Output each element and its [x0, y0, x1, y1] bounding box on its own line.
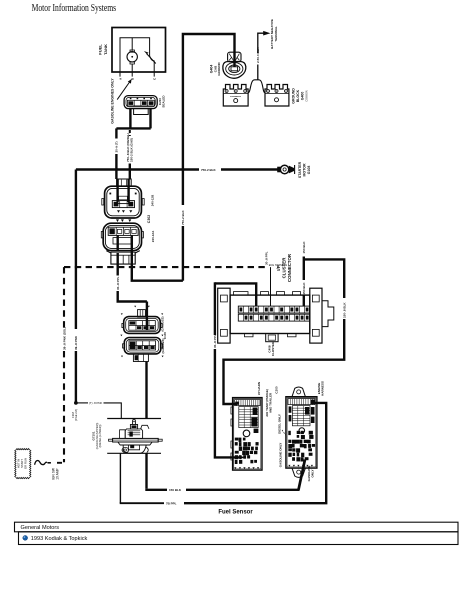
svg-text:(PGE 2-8): (PGE 2-8)	[74, 409, 78, 421]
footer row 1993 Kodiak & Topkick	[23, 536, 88, 543]
ground bolt G404	[223, 52, 246, 78]
svg-text:240-12B: 240-12B	[151, 194, 155, 206]
C210 label	[158, 95, 166, 108]
ground block G400	[223, 80, 289, 106]
ground block label	[292, 88, 309, 104]
wire C302 right to ground junction	[132, 235, 183, 281]
svg-text:FUEL: FUEL	[98, 44, 103, 55]
wire 30-A to connector C302	[115, 128, 119, 202]
svg-text:(GAUGES): (GAUGES)	[161, 316, 165, 331]
svg-text:30-A (T): 30-A (T)	[115, 141, 119, 152]
svg-text:ONLY: ONLY	[310, 469, 314, 477]
svg-text:30-.8 PPL: 30-.8 PPL	[213, 334, 217, 348]
fuel tank F1	[112, 28, 166, 73]
starter motor label	[298, 161, 311, 178]
footer row General Motors	[21, 525, 60, 531]
svg-text:TERMINAL: TERMINAL	[274, 26, 278, 42]
wire bus below C210	[116, 127, 150, 129]
gauge module left (I/P)	[231, 398, 262, 471]
oval connector corner marks	[120, 306, 163, 357]
wire C210 left pin down	[129, 109, 131, 129]
wire ground branch right	[224, 259, 347, 404]
wire pink to sender	[78, 401, 122, 419]
C302 center label	[147, 215, 151, 223]
harness boundary dashed line vertical	[62, 267, 66, 462]
svg-text:7B PPL: 7B PPL	[166, 502, 177, 506]
cluster connector pin rows	[238, 306, 309, 321]
cluster connector labels	[276, 253, 292, 282]
junction dot pink feed	[71, 401, 78, 421]
oval connectors label C100	[161, 316, 168, 353]
svg-text:150 BLK: 150 BLK	[302, 282, 306, 295]
svg-text:750-2 BLK: 750-2 BLK	[201, 168, 217, 172]
ground wire horizontal to starter	[76, 168, 278, 172]
svg-text:I/P HARN: I/P HARN	[257, 382, 261, 395]
connector C302 lower half	[101, 223, 143, 264]
connector C210	[124, 96, 157, 109]
svg-text:C100: C100	[163, 332, 167, 340]
svg-text:150 BLK: 150 BLK	[302, 241, 306, 254]
connector C302 upper half	[102, 179, 144, 222]
svg-text:Fuel Sensor: Fuel Sensor	[218, 510, 253, 516]
svg-text:150-2 BLK (GAS): 150-2 BLK (GAS)	[130, 138, 134, 162]
svg-text:GROUND: GROUND	[292, 88, 296, 104]
svg-text:GASOLINE ENGINES ONLY: GASOLINE ENGINES ONLY	[111, 78, 115, 124]
C302 upper label	[151, 194, 155, 206]
svg-text:C302: C302	[147, 215, 151, 223]
tank pin C	[153, 72, 157, 80]
svg-text:G400: G400	[301, 92, 305, 101]
svg-text:General Motors: General Motors	[21, 525, 60, 531]
fuse IGN SW 10 AMP	[35, 461, 64, 481]
fuel sensor G7101 assembly	[107, 419, 162, 454]
svg-text:30-.8 PPL: 30-.8 PPL	[116, 276, 120, 290]
svg-text:(T) .8 PNK: (T) .8 PNK	[89, 401, 102, 405]
svg-text:OR RUN: OR RUN	[24, 458, 28, 469]
svg-text:Motor Information Systems: Motor Information Systems	[32, 3, 117, 14]
harness boundary dashed line horizontal	[64, 264, 287, 267]
ground wire top to G404	[181, 34, 234, 281]
svg-text:(DIESEL (LOWER)): (DIESEL (LOWER))	[98, 424, 102, 447]
wire junction to cluster pin	[215, 283, 256, 306]
wire pink vertical left	[74, 170, 78, 403]
svg-text:CLUSTER: CLUSTER	[281, 257, 286, 279]
wire C302 to junction (PPL)	[116, 235, 147, 302]
wire 30 PPL down to gauge module	[213, 282, 244, 459]
wire 750 BLK dashed to connector C302	[126, 130, 134, 202]
diesel only note	[278, 414, 287, 437]
svg-text:CONNECTOR: CONNECTOR	[287, 253, 292, 282]
svg-text:GASOLINE ONLY: GASOLINE ONLY	[279, 443, 283, 468]
gasoline engines only note	[111, 78, 132, 124]
fuel level variable resistor	[144, 51, 156, 72]
wire sender ground to right module	[145, 453, 305, 492]
svg-text:DIESEL ONLY: DIESEL ONLY	[278, 414, 282, 434]
svg-text:39-.8 PNK (DSL): 39-.8 PNK (DSL)	[62, 327, 66, 350]
battery negative terminal label	[270, 19, 278, 49]
svg-text:BLOCK: BLOCK	[296, 89, 300, 102]
left module labels	[257, 382, 279, 417]
tank pin A	[118, 72, 122, 80]
svg-text:39-.8 PNK: 39-.8 PNK	[74, 335, 78, 350]
gauge module right (engine)	[286, 387, 317, 477]
svg-text:COMMON: COMMON	[230, 96, 241, 98]
tank pin B	[131, 72, 135, 80]
right module labels	[317, 381, 325, 396]
C302 lower label	[151, 230, 155, 242]
svg-text:150 BLK: 150 BLK	[169, 488, 182, 492]
ring terminal starter motor G108	[278, 165, 295, 174]
svg-text:G7101: G7101	[92, 431, 96, 440]
svg-text:30-.8 PPL: 30-.8 PPL	[265, 251, 269, 265]
svg-text:(GAUGES): (GAUGES)	[161, 338, 165, 353]
svg-text:TANK: TANK	[103, 44, 108, 55]
svg-text:240-12A: 240-12A	[151, 230, 155, 242]
svg-text:MOTOR: MOTOR	[303, 163, 307, 176]
jumper loop pins B-C	[134, 109, 149, 115]
wire into oval connectors	[146, 302, 148, 331]
svg-text:750-2 BLK: 750-2 BLK	[181, 209, 185, 225]
svg-text:CLUSTER: CLUSTER	[271, 341, 275, 356]
title	[32, 3, 117, 14]
svg-text:G108: G108	[307, 166, 311, 175]
svg-text:C200: C200	[275, 386, 279, 394]
cluster bottom label C408	[268, 341, 276, 356]
svg-text:I/P: I/P	[276, 265, 281, 270]
oval connector lower	[123, 338, 163, 362]
wire ground block to cluster	[302, 241, 306, 307]
hot in start or run box	[15, 449, 31, 479]
oval connector upper	[122, 310, 162, 334]
svg-text:GROUND: GROUND	[217, 62, 221, 76]
footer table	[15, 522, 459, 544]
fuel pump M	[127, 38, 137, 72]
gasoline only note right	[307, 466, 315, 482]
svg-text:AND TRAILER: AND TRAILER	[269, 392, 273, 413]
wire sender signal to right module	[120, 403, 327, 506]
svg-text:HARNESS: HARNESS	[321, 381, 325, 396]
wire C210 right pin down	[149, 109, 151, 129]
G7101 label	[92, 423, 103, 450]
svg-text:150-.8 BLK: 150-.8 BLK	[343, 302, 347, 318]
svg-text:10 AMP: 10 AMP	[55, 467, 59, 479]
battery negative wire and arrow	[256, 31, 270, 80]
fuel tank label	[98, 44, 108, 55]
G404 label	[210, 62, 221, 76]
gasoline only note left	[279, 443, 283, 468]
svg-text:SEALED: SEALED	[162, 95, 166, 108]
wire ovals to fuel sensor	[145, 362, 147, 419]
caption Fuel Sensor	[218, 510, 253, 516]
svg-text:COMMON: COMMON	[305, 90, 308, 101]
svg-text:1993 Kodiak & Topkick: 1993 Kodiak & Topkick	[31, 536, 88, 542]
wire thin to cluster pin	[265, 251, 271, 306]
svg-text:STARTER: STARTER	[298, 161, 302, 178]
cluster connector C408	[218, 288, 334, 343]
